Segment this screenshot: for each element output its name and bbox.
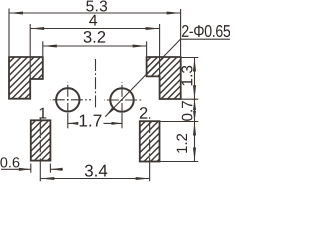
extension line x=30.2 [29, 24, 31, 79]
dimension 0.7 arrow down [193, 111, 196, 122]
dimension 1.3 arrow up [193, 58, 196, 72]
pad 1 (hatched rectangle, pin 1) [31, 120, 51, 160]
center line hole right horizontal [104, 99, 143, 101]
center line pad 1 vertical [39, 117, 41, 164]
dimension 4 arrow left [30, 27, 44, 30]
dimension 3.4 arrow right [136, 177, 150, 180]
center line hole left horizontal [50, 99, 91, 101]
dimension 1.7 line right segment [104, 122, 123, 124]
dimension 1.3 text (rotated) [181, 66, 192, 86]
dimension 0.7 line [194, 99, 196, 121]
housing part top-right (hatched L-shape, mirrored) [147, 57, 181, 99]
pin label 1 [40, 108, 47, 119]
dimension 5.3 line [9, 12, 181, 14]
dimension 1.7 text [80, 115, 102, 127]
dimension 1.7 line left segment [68, 122, 77, 124]
extension line below pad 2 [149, 163, 151, 181]
extension tick pad1 left edge [30, 164, 32, 173]
extension line right y=121.5 (pad2 top) [160, 121, 199, 123]
dimension 0.7 text (rotated) [182, 101, 193, 121]
extension line right y=161.5 (pad2 bottom) [160, 161, 199, 163]
center line vertical axis [95, 59, 97, 108]
dimension 0.6 tail right [50, 168, 63, 170]
extension line below hole right [121, 113, 123, 128]
dimension 1.7 arrow right [112, 122, 123, 125]
dimension 1.3 line [194, 58, 196, 100]
dimension 4 arrow right [146, 27, 160, 30]
dimension 1.2 arrow down [193, 148, 196, 162]
dimension 1.2 text (rotated) [177, 134, 187, 153]
dimension 1.3 arrow down [193, 85, 196, 99]
dimension 0.6 arrow left (outside, pointing right) [19, 168, 31, 171]
dimension 4 line [30, 28, 159, 30]
extension tick pad1 right edge [49, 164, 51, 173]
dimension 3.2 arrow left [43, 44, 57, 47]
extension line right x=180.6 [180, 9, 182, 56]
extension line left x=9 [8, 9, 10, 57]
leader arrow at hole right [105, 107, 114, 117]
pin label 2 [140, 107, 148, 119]
dimension 0.7 arrow up [193, 99, 196, 110]
extension line x=42.8 [42, 41, 44, 56]
dimension 3.4 line [40, 178, 149, 180]
dimension 4 text [89, 15, 97, 26]
extension line x=159.6 [159, 24, 161, 76]
center line pad 2 vertical [149, 116, 151, 164]
dimension 1.2 arrow up [193, 122, 196, 136]
dimension 3.4 text [85, 165, 107, 177]
dimension 3.2 arrow right [133, 44, 147, 47]
center line hole right vertical [121, 82, 123, 113]
dimension 1.7 arrow left [68, 122, 79, 125]
extension line right top y=57.5 [181, 57, 198, 59]
dimension 3.2 text [84, 31, 106, 43]
dimension 0.6 text [0, 157, 19, 167]
extension line below hole left [67, 113, 69, 128]
dimension 5.3 arrow right [167, 11, 181, 14]
extension line below pad 1 [39, 163, 41, 181]
extension line right y=99.2 [181, 98, 198, 100]
dimension 5.3 arrow left [9, 11, 23, 14]
center line hole left vertical [67, 82, 69, 113]
hole circle left [56, 88, 79, 111]
housing part top-left (hatched L-shape) [9, 57, 43, 99]
leader shoulder line for 2-phi0.65 [180, 38, 230, 40]
dimension 3.4 arrow left [40, 177, 54, 180]
dimension 0.6 tail left [1, 168, 31, 170]
dimension 1.2 line [194, 122, 196, 162]
dimension 5.3 text [86, 0, 107, 11]
hole circle right [110, 88, 133, 111]
leader diagonal line to hole right [105, 39, 180, 117]
extension line x=146.6 [146, 41, 148, 56]
dimension 0.6 arrow right (outside, pointing left) [50, 168, 62, 171]
label 2-phi0.65 text [182, 25, 230, 37]
pad 2 (hatched rectangle, pin 2) [140, 121, 160, 161]
dimension 3.2 line [43, 45, 147, 47]
